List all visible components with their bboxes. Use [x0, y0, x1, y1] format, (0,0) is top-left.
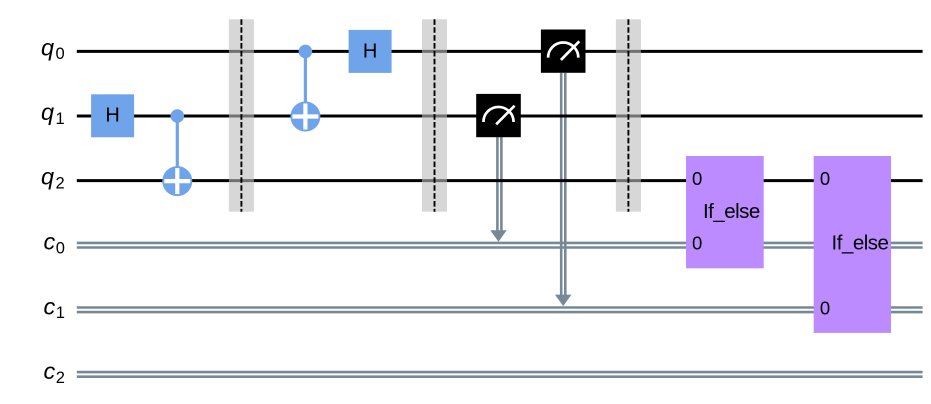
svg-text:0: 0 [692, 233, 702, 254]
svg-text:If_else: If_else [703, 200, 760, 223]
quantum wire q1 [77, 115, 923, 118]
wire label c2 [44, 358, 65, 387]
barrier 2 [422, 19, 447, 211]
svg-text:H: H [363, 41, 377, 63]
if_else box 1 (q2, c0) [686, 156, 764, 268]
svg-text:1: 1 [56, 304, 65, 322]
svg-text:H: H [105, 104, 119, 126]
barrier 1 [229, 19, 254, 211]
if_else box 2 (q2, c0, c1) [814, 156, 891, 333]
wire label q0 [41, 34, 65, 63]
svg-text:1: 1 [56, 110, 65, 128]
wire label c1 [44, 293, 65, 322]
measure arrow M2 from q0 to c1 (double vertical line + arrowhead) [555, 73, 571, 306]
svg-text:q: q [41, 164, 54, 190]
quantum wire q2 [77, 179, 923, 182]
measure gate M2 on q0 [541, 30, 586, 73]
svg-text:2: 2 [56, 369, 65, 387]
svg-text:q: q [41, 34, 54, 60]
classical wire c2 (double line) [77, 372, 923, 377]
H gate on q1 [91, 94, 134, 137]
svg-text:If_else: If_else [832, 232, 889, 255]
classical wire c1 (double line) [77, 308, 923, 313]
wire label q2 [41, 164, 65, 193]
measure arrow M1 from q1 to c0 (double vertical line + arrowhead) [490, 137, 506, 242]
svg-text:0: 0 [56, 240, 65, 258]
svg-text:0: 0 [56, 45, 65, 63]
quantum wire q0 [77, 50, 923, 53]
classical wire c0 (double line) [77, 243, 923, 248]
svg-text:0: 0 [820, 297, 830, 318]
wire label q1 [41, 99, 65, 128]
svg-text:0: 0 [820, 168, 830, 189]
svg-text:c: c [44, 229, 56, 255]
svg-text:c: c [44, 293, 56, 319]
H gate on q0 [349, 30, 392, 73]
CX gate 1: control q1, target q2 [162, 109, 192, 196]
CX gate 2: control q0, target q1 [290, 45, 320, 132]
svg-text:c: c [44, 358, 56, 384]
barrier 3 [616, 19, 641, 211]
svg-text:q: q [41, 99, 54, 125]
wire label c0 [44, 229, 65, 258]
svg-text:0: 0 [692, 168, 702, 189]
measure gate M1 on q1 [476, 94, 521, 137]
svg-text:2: 2 [56, 174, 65, 192]
